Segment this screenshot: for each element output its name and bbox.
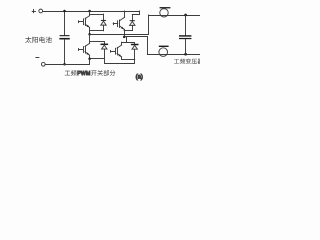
diode D4 [131,44,139,60]
node: L2 output junction [184,53,187,56]
svg-text:PWM: PWM [77,71,90,77]
node: bottom rail-C1 junction [63,63,66,66]
top DC rail wire [43,11,139,13]
Q2 cell bottom connector [90,58,105,60]
node A riser to Q2 cell top [89,34,91,42]
filter inductor L1 core bar [160,7,171,8]
minus input terminal [41,62,45,66]
switch-section label 开关部分 [91,70,115,76]
filter inductor L1 [149,9,200,17]
filter capacitor C2 [179,15,191,54]
node B riser to Q4 cell top [126,37,128,42]
plus label [32,10,35,13]
IGBT Q4 [111,42,122,59]
node A wire (mid line) [90,15,149,35]
node: rail-C1 junction [63,10,66,13]
Q1 cell top connector [90,14,104,16]
IGBT Q2 [79,42,90,59]
Q4 cell bottom connector [122,59,135,61]
transformer label 工频变压器 [174,58,203,63]
minus label [36,57,39,59]
Q1 cell bottom connector [90,30,104,32]
Q2 cell top connector [90,41,105,43]
node: Q2 emitter / negative rail junction [88,58,91,61]
negative bus link wire under bridge [105,59,135,64]
diode D1 [101,14,106,31]
dc link capacitor C1 [59,11,69,64]
Q3 emitter riser to node B [124,31,126,37]
top rail elbow to D2 [132,11,139,15]
plus input terminal [39,9,43,13]
Q3 cell bottom connector [124,30,132,32]
solar-cell text 太阳电池 [25,37,51,43]
diode D3 [130,15,135,31]
Q4 cell top connector [122,43,135,45]
filter inductor L2 core bar [159,46,169,47]
svg-text:(a): (a) [136,75,143,81]
node: L1 output junction [184,14,187,17]
Q1 emitter riser to node A [89,31,91,35]
node B wire [124,37,147,55]
node A junction dot [88,33,91,36]
node: rail-Q1 junction [88,10,91,13]
IGBT Q1 [79,11,90,31]
IGBT Q3 [113,11,124,31]
bottom DC rail wire [45,59,89,65]
filter inductor L2 [147,48,200,57]
diode D2 [101,42,109,59]
switch-section label 工频 (part 1) [65,70,77,76]
node B junction dot [123,36,126,39]
